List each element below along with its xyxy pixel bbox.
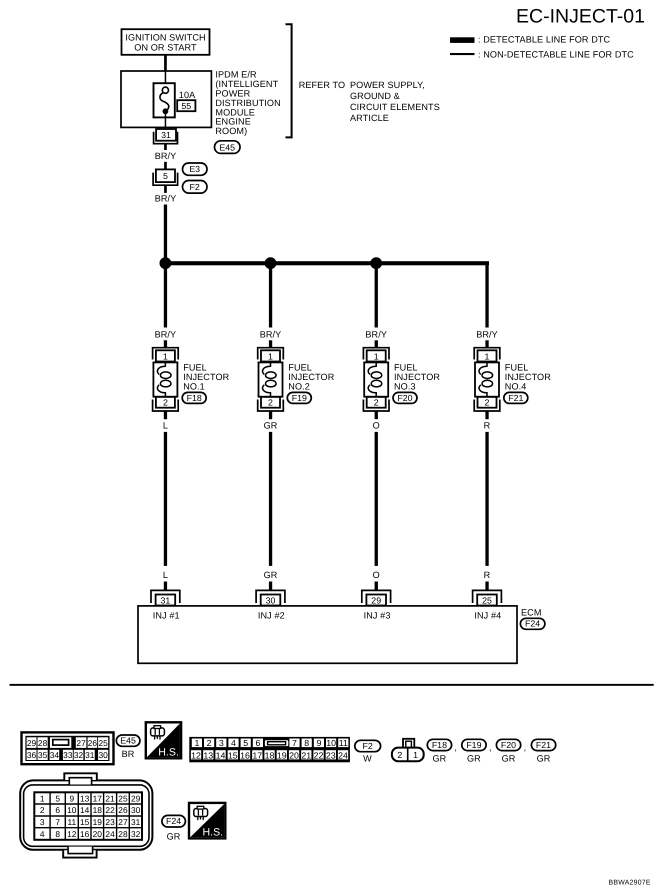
svg-text:13: 13 [203,750,213,760]
svg-text:2: 2 [207,738,212,748]
svg-text:F24: F24 [525,619,540,629]
label BR/Y injector NO.1 [155,330,177,340]
svg-text:F19: F19 [466,740,481,750]
svg-text:21: 21 [105,793,115,803]
svg-text:GROUND &: GROUND & [350,91,400,101]
H.S. icon (F24 view) [189,803,225,839]
svg-text:27: 27 [76,738,86,748]
pin 31 connector bracket [154,132,178,144]
label 55 box [177,100,195,111]
fuel injector NO.3 bottom bracket [363,400,389,412]
ECM pin 25 box [477,595,497,606]
connector layout F2 [189,737,350,762]
svg-text:20: 20 [289,750,299,760]
svg-text:17: 17 [93,793,103,803]
refer-to bracket [286,24,292,137]
svg-text:F20: F20 [397,393,412,403]
svg-text:11: 11 [339,738,348,748]
wire stub above ECM pin 31 [164,582,167,591]
wire branch to injector NO.2 [269,263,272,327]
label INJ #1 [153,611,180,621]
svg-text:NO.3: NO.3 [394,382,416,392]
svg-text:5: 5 [55,793,60,803]
connector ref F21 oval (bottom) [531,739,555,750]
fuel injector NO.3 top bracket [363,348,389,360]
svg-text:E3: E3 [189,164,200,174]
fuel injector NO.2 pin 1 box [261,350,280,361]
svg-text:21: 21 [301,750,311,760]
connector ref F24 oval [520,618,545,629]
svg-text:F2: F2 [363,741,373,751]
title EC-INJECT-01 [516,5,645,27]
fuel injector NO.3 pin 2 box [367,397,386,408]
svg-text:7: 7 [55,817,60,827]
svg-text:10: 10 [326,738,336,748]
fuel injector NO.3 pin 1 box [367,350,386,361]
connector ref E3 oval [183,163,208,175]
svg-text:1: 1 [40,793,45,803]
label GR (F20) [502,753,516,763]
svg-text:24: 24 [105,829,115,839]
connector ref F20 oval [393,392,417,403]
svg-text:14: 14 [216,750,226,760]
connector layout E45 [22,732,114,764]
svg-text:16: 16 [240,750,250,760]
wire stub above connector 5 [164,162,167,170]
label 10A [179,90,196,100]
connector layout F24 shell [20,773,152,857]
pin 31 box [156,129,176,141]
wire stub above injector NO.3 [375,340,378,347]
svg-text:F21: F21 [508,393,523,403]
svg-text:9: 9 [316,738,321,748]
svg-text:12: 12 [191,750,201,760]
ECM pin 31 bracket [151,590,180,603]
svg-text:2: 2 [374,398,379,408]
svg-text:FUEL: FUEL [183,363,207,373]
svg-text:32: 32 [131,829,141,839]
wire fuse to IPDM bottom [165,111,167,129]
label FUEL INJECTOR NO.4 [505,363,551,392]
junction dot 2 [265,257,277,269]
wire color label L top [163,420,168,430]
wire stub above ECM pin 29 [375,582,378,591]
svg-text:INJ #4: INJ #4 [474,611,501,621]
fuel injector NO.4 coil U4 [475,362,499,397]
label INJ #2 [258,611,285,621]
fuel injector NO.2 pin 2 box [261,397,280,408]
svg-text:R: R [484,570,491,580]
label BR/Y injector NO.3 [365,330,387,340]
svg-text:BR/Y: BR/Y [365,330,387,340]
svg-text:23: 23 [326,750,336,760]
doc code BBWA2907E [609,879,651,886]
svg-text:1: 1 [194,738,199,748]
svg-text:F20: F20 [501,740,516,750]
fuel injector NO.3 coil U3 [364,362,388,397]
long wire injector NO.4 to ECM [485,432,488,566]
svg-text:4: 4 [40,829,45,839]
svg-text:REFER TO: REFER TO [299,80,345,90]
wire color label GR top [264,420,278,430]
svg-text:22: 22 [105,805,115,815]
svg-text:BR/Y: BR/Y [155,193,177,203]
svg-text:15: 15 [228,750,238,760]
svg-text:ECM: ECM [521,607,542,617]
svg-text:15: 15 [80,817,90,827]
svg-text:14: 14 [80,805,90,815]
wire stub above ECM pin 25 [485,582,488,591]
IPDM E/R box [121,71,211,127]
svg-text:O: O [373,570,380,580]
svg-text:31: 31 [161,130,171,140]
svg-text:INJECTOR: INJECTOR [288,372,334,382]
svg-text:10: 10 [67,805,77,815]
svg-text:BR/Y: BR/Y [476,330,498,340]
ECM pin 30 box [261,595,281,606]
svg-text:NO.2: NO.2 [288,382,310,392]
svg-text:7: 7 [292,738,297,748]
wire color label R bottom [484,570,491,580]
injector 2-pin connector glyph [392,739,424,761]
wire branch to injector NO.4 [485,263,488,327]
svg-text:L: L [163,570,168,580]
svg-text:EC-INJECT-01: EC-INJECT-01 [516,5,645,27]
svg-text:5: 5 [163,171,168,181]
svg-text:GR: GR [537,753,551,763]
label REFER TO [299,80,345,90]
wire stub above ECM pin 30 [269,582,272,591]
ECM pin 31 box [156,595,176,606]
svg-text:INJECTOR: INJECTOR [505,372,551,382]
wire stub above injector NO.1 [164,340,167,347]
svg-text:2: 2 [268,398,273,408]
svg-text:16: 16 [80,829,90,839]
label GR (F19) [467,753,481,763]
label ECM [521,607,542,617]
ECM pin 30 bracket [256,590,285,603]
svg-text:1: 1 [374,351,379,361]
svg-text:3: 3 [219,738,224,748]
connector ref E45 oval (top) [215,141,241,154]
label FUEL INJECTOR NO.3 [394,363,440,392]
svg-text:INJECTOR: INJECTOR [394,372,440,382]
svg-text:IGNITION SWITCH: IGNITION SWITCH [125,32,205,42]
fuel injector NO.4 top bracket [474,348,500,360]
svg-text:27: 27 [118,817,128,827]
junction dot 1 [160,257,172,269]
svg-text:INJ #1: INJ #1 [153,611,180,621]
svg-text:F18: F18 [187,393,202,403]
svg-text:1: 1 [485,351,490,361]
svg-text:33: 33 [63,750,73,760]
ECM pin 25 bracket [473,590,502,603]
svg-text:29: 29 [131,793,141,803]
svg-text:L: L [163,420,168,430]
svg-text:BR/Y: BR/Y [155,330,177,340]
svg-text:: NON-DETECTABLE LINE FOR DTC: : NON-DETECTABLE LINE FOR DTC [478,49,634,59]
svg-text:F2: F2 [190,182,200,192]
fuel injector NO.1 pin 1 box [156,350,175,361]
svg-text:8: 8 [55,829,60,839]
svg-text:FUEL: FUEL [288,363,312,373]
wire color label GR bottom [264,570,278,580]
svg-text:BBWA2907E: BBWA2907E [609,879,651,886]
svg-text:GR: GR [264,420,278,430]
connector ref F18 oval [182,392,206,403]
legend detectable line swatch [450,37,475,43]
svg-text:25: 25 [98,738,108,748]
svg-text:6: 6 [255,738,260,748]
wire stub below connector 5 [164,185,167,193]
fuel injector NO.2 coil U2 [259,362,283,397]
svg-text:26: 26 [88,738,98,748]
svg-text:4: 4 [231,738,236,748]
svg-text:GR: GR [502,753,516,763]
svg-text:FUEL: FUEL [505,363,529,373]
svg-text:9: 9 [69,793,74,803]
svg-text:,: , [489,743,492,753]
svg-text:24: 24 [338,750,348,760]
svg-text:6: 6 [55,805,60,815]
svg-text:W: W [363,753,372,763]
label IPDM E/R text column [215,70,280,136]
fuel injector NO.1 top bracket [153,348,179,360]
svg-text:32: 32 [74,750,84,760]
svg-text:2: 2 [397,750,402,760]
wire stub above injector NO.4 [485,340,488,347]
label BR/Y 1 [155,151,177,161]
connector ref E45 oval (bottom) [116,735,139,746]
wire stub below injector NO.1 [164,411,167,419]
wire ignition to IPDM [164,55,167,72]
svg-text:20: 20 [93,829,103,839]
svg-text:25: 25 [482,595,492,605]
label BR (E45) [122,749,135,759]
svg-text:E45: E45 [219,142,235,152]
legend detectable text [478,35,611,45]
svg-text:34: 34 [50,750,60,760]
svg-text:55: 55 [181,101,191,111]
svg-text:23: 23 [105,817,115,827]
svg-text:,: , [524,743,527,753]
label BR/Y injector NO.2 [260,330,282,340]
wire stub below injector NO.3 [375,411,378,419]
fuel injector NO.4 bottom bracket [474,400,500,412]
svg-text:13: 13 [80,793,90,803]
connector ref F19 oval [287,392,311,403]
wire stub below pin 31 [164,143,167,150]
wire stub below injector NO.2 [269,411,272,419]
wire stub below injector NO.4 [485,411,488,419]
svg-text:25: 25 [118,793,128,803]
svg-text:31: 31 [131,817,141,827]
svg-text:12: 12 [67,829,77,839]
separator line [10,684,654,686]
fuel injector NO.1 pin 2 box [156,397,175,408]
connector ref F18 oval (bottom) [427,739,451,750]
svg-text:1: 1 [268,351,273,361]
svg-text:,: , [454,743,457,753]
connector 5 box [156,169,175,182]
svg-text:22: 22 [314,750,324,760]
svg-text:10A: 10A [179,90,196,100]
label INJ #4 [474,611,501,621]
svg-text:8: 8 [304,738,309,748]
svg-text:INJ #3: INJ #3 [364,611,391,621]
svg-text:GR: GR [167,832,181,842]
svg-text:INJECTOR: INJECTOR [183,372,229,382]
svg-text:28: 28 [118,829,128,839]
svg-text:18: 18 [93,805,103,815]
bus wire [164,261,489,265]
fuel injector NO.1 coil U1 [153,362,177,397]
svg-text:ON OR START: ON OR START [134,43,197,53]
label INJ #3 [364,611,391,621]
svg-text:17: 17 [252,750,262,760]
svg-text:F21: F21 [536,740,551,750]
svg-text:O: O [373,420,380,430]
connector 5 bracket [153,173,178,186]
wire to bus [164,205,167,262]
svg-text:18: 18 [265,750,275,760]
svg-text:26: 26 [118,805,128,815]
svg-text:30: 30 [266,595,276,605]
wire branch to injector NO.3 [375,263,378,327]
comma 1 [454,743,457,753]
fuel injector NO.1 bottom bracket [153,400,179,412]
ECM pin 29 bracket [362,590,391,603]
label W (F2) [363,753,372,763]
svg-text:19: 19 [93,817,103,827]
svg-text:FUEL: FUEL [394,363,418,373]
svg-text:BR: BR [122,749,135,759]
svg-text:BR/Y: BR/Y [155,151,177,161]
svg-text:E45: E45 [120,736,136,746]
svg-text:5: 5 [243,738,248,748]
svg-text:ARTICLE: ARTICLE [350,113,389,123]
wire color label L bottom [163,570,168,580]
label BR/Y 2 [155,193,177,203]
fuel injector NO.2 bottom bracket [258,400,284,412]
svg-text:H.S.: H.S. [158,746,179,758]
svg-text:: DETECTABLE LINE FOR DTC: : DETECTABLE LINE FOR DTC [478,35,611,45]
comma 2 [489,743,492,753]
label GR (F18) [432,753,446,763]
svg-text:3: 3 [40,817,45,827]
svg-text:35: 35 [38,750,48,760]
svg-text:2: 2 [40,805,45,815]
svg-text:2: 2 [485,398,490,408]
svg-text:30: 30 [98,750,108,760]
svg-text:GR: GR [264,570,278,580]
wire color label O top [373,420,380,430]
svg-text:36: 36 [27,750,37,760]
svg-text:F19: F19 [292,393,307,403]
wire branch to injector NO.1 [164,263,167,327]
H.S. icon (E45 view) [146,722,181,758]
wire color label R top [484,420,491,430]
ignition switch box [122,29,210,55]
svg-text:GR: GR [432,753,446,763]
svg-text:BR/Y: BR/Y [260,330,282,340]
svg-text:28: 28 [38,738,48,748]
junction dot 3 [370,257,382,269]
long wire injector NO.2 to ECM [269,432,272,566]
connector ref F24 oval (bottom) [162,815,186,827]
ECM box [138,606,517,663]
legend non-detectable text [478,49,634,59]
svg-text:H.S.: H.S. [202,827,223,839]
svg-text:POWER SUPPLY,: POWER SUPPLY, [350,80,425,90]
wire color label O bottom [373,570,380,580]
svg-text:29: 29 [371,595,381,605]
svg-text:INJ #2: INJ #2 [258,611,285,621]
ECM pin 29 box [366,595,386,606]
long wire injector NO.1 to ECM [164,432,167,566]
svg-text:F18: F18 [432,740,447,750]
svg-text:CIRCUIT ELEMENTS: CIRCUIT ELEMENTS [350,102,440,112]
connector F24 pin grid [34,792,142,840]
svg-text:30: 30 [131,805,141,815]
svg-text:R: R [484,420,491,430]
svg-text:2: 2 [163,398,168,408]
connector ref F2 oval [183,181,208,194]
svg-text:1: 1 [163,351,168,361]
wire stub above injector NO.2 [269,340,272,347]
label BR/Y injector NO.4 [476,330,498,340]
label FUEL INJECTOR NO.2 [288,363,334,392]
svg-text:GR: GR [467,753,481,763]
label GR (F21) [537,753,551,763]
long wire injector NO.3 to ECM [375,432,378,566]
comma 3 [524,743,527,753]
svg-text:NO.1: NO.1 [183,382,205,392]
fuse 10A box [154,83,175,117]
legend non-detectable line swatch [450,53,475,55]
svg-text:19: 19 [277,750,287,760]
svg-text:NO.4: NO.4 [505,382,527,392]
svg-text:ROOM): ROOM) [215,126,247,136]
label POWER SUPPLY article [350,80,440,123]
svg-text:11: 11 [67,817,76,827]
fuel injector NO.4 pin 2 box [478,397,497,408]
svg-text:31: 31 [85,750,95,760]
label GR (F24) [167,832,181,842]
label FUEL INJECTOR NO.1 [183,363,229,392]
connector ref F21 oval [504,392,528,403]
fuel injector NO.2 top bracket [258,348,284,360]
svg-text:31: 31 [161,595,171,605]
connector ref F20 oval (bottom) [496,739,520,750]
connector ref F19 oval (bottom) [462,739,486,750]
connector ref F2 oval (bottom) [355,740,381,751]
svg-text:1: 1 [413,750,418,760]
svg-text:29: 29 [27,738,37,748]
wire inside IPDM top to fuse [165,71,167,87]
fuel injector NO.4 pin 1 box [478,350,497,361]
svg-text:F24: F24 [166,816,181,826]
